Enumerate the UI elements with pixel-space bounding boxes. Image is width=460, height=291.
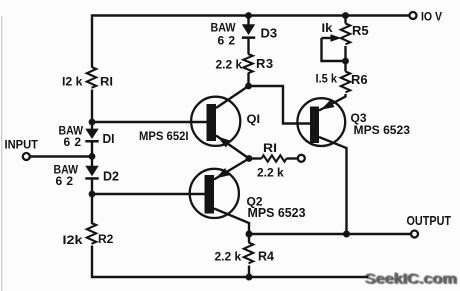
svg-text:OUTPUT: OUTPUT	[407, 213, 452, 228]
diode D1 BAW62	[59, 124, 115, 150]
svg-text:DI: DI	[103, 132, 115, 146]
diode D3 BAW62	[211, 16, 278, 48]
resistor R5 1k pot	[322, 16, 369, 62]
svg-text:IO V: IO V	[421, 12, 442, 24]
svg-text:SeekIC.com: SeekIC.com	[366, 271, 458, 288]
node B (D2/R2/Q2 base)	[89, 191, 96, 198]
svg-text:INPUT: INPUT	[5, 138, 39, 152]
resistor R1 12k	[62, 67, 113, 89]
svg-text:RI: RI	[100, 75, 113, 89]
node F (Q2 collector/output/R4)	[246, 231, 253, 238]
resistor R6 1.5k	[316, 61, 368, 111]
terminal R1 out	[298, 155, 305, 162]
resistor R3 2.2k	[216, 39, 274, 86]
wire bottom bus	[91, 276, 368, 278]
svg-text:BAW: BAW	[211, 21, 237, 35]
wire Q2 base	[92, 193, 205, 195]
pot wiper wire	[322, 34, 346, 61]
wire left column	[91, 14, 93, 278]
svg-text:2.2 k: 2.2 k	[215, 250, 242, 264]
node G (R4 bottom)	[246, 274, 253, 281]
svg-text:D3: D3	[261, 26, 278, 41]
scan edge artifact	[1, 16, 2, 291]
resistor R4 2.2k	[215, 234, 275, 277]
transistor Q2 MPS6523	[190, 159, 306, 235]
terminal OUTPUT	[407, 213, 452, 238]
terminal 10V	[410, 12, 443, 24]
node H (Q3 collector/output)	[343, 231, 350, 238]
svg-text:R5: R5	[352, 23, 369, 38]
terminal INPUT	[5, 138, 39, 161]
svg-text:2.2 k: 2.2 k	[257, 166, 284, 180]
resistor R1 2.2k mid	[249, 141, 298, 180]
svg-text:MPS 652I: MPS 652I	[139, 129, 189, 143]
svg-text:RI: RI	[263, 141, 277, 155]
wire top bus	[92, 14, 410, 16]
svg-text:R4: R4	[258, 250, 274, 264]
node R5/R6 junction	[342, 58, 349, 65]
node A (R1/D1/Q1 base)	[89, 119, 96, 126]
svg-text:D2: D2	[103, 170, 119, 184]
node R5 top	[342, 12, 349, 19]
svg-text:62: 62	[64, 135, 86, 149]
svg-text:62: 62	[56, 174, 78, 188]
svg-text:R6: R6	[351, 72, 368, 87]
node D3 top	[245, 12, 252, 19]
svg-text:MPS 6523: MPS 6523	[354, 123, 411, 137]
diode D2 BAW62	[54, 163, 120, 189]
wire input	[30, 155, 92, 157]
wire Q3 base path	[249, 86, 311, 124]
svg-text:62: 62	[218, 34, 240, 48]
node C (R3/Q1 collector/Q3 base)	[245, 83, 252, 90]
svg-text:QI: QI	[247, 112, 261, 126]
wire output bus	[249, 233, 411, 235]
transistor Q3 MPS6523	[297, 98, 410, 234]
svg-text:Ik: Ik	[322, 23, 334, 35]
svg-text:2.2 k: 2.2 k	[216, 58, 243, 72]
resistor R2 12k	[63, 223, 114, 247]
svg-text:R2: R2	[98, 232, 114, 246]
svg-text:I2 k: I2 k	[62, 75, 83, 89]
svg-text:MPS 6523: MPS 6523	[248, 206, 306, 220]
svg-text:I.5 k: I.5 k	[316, 72, 338, 86]
wire Q1 base	[92, 121, 207, 123]
wire Q1 collector	[216, 86, 249, 108]
svg-text:R3: R3	[256, 56, 274, 71]
transistor Q1 MPS6521	[139, 97, 260, 159]
svg-text:I2k: I2k	[63, 233, 83, 247]
node input junction	[89, 153, 96, 160]
node E (emitters/R1 mid)	[246, 155, 253, 162]
